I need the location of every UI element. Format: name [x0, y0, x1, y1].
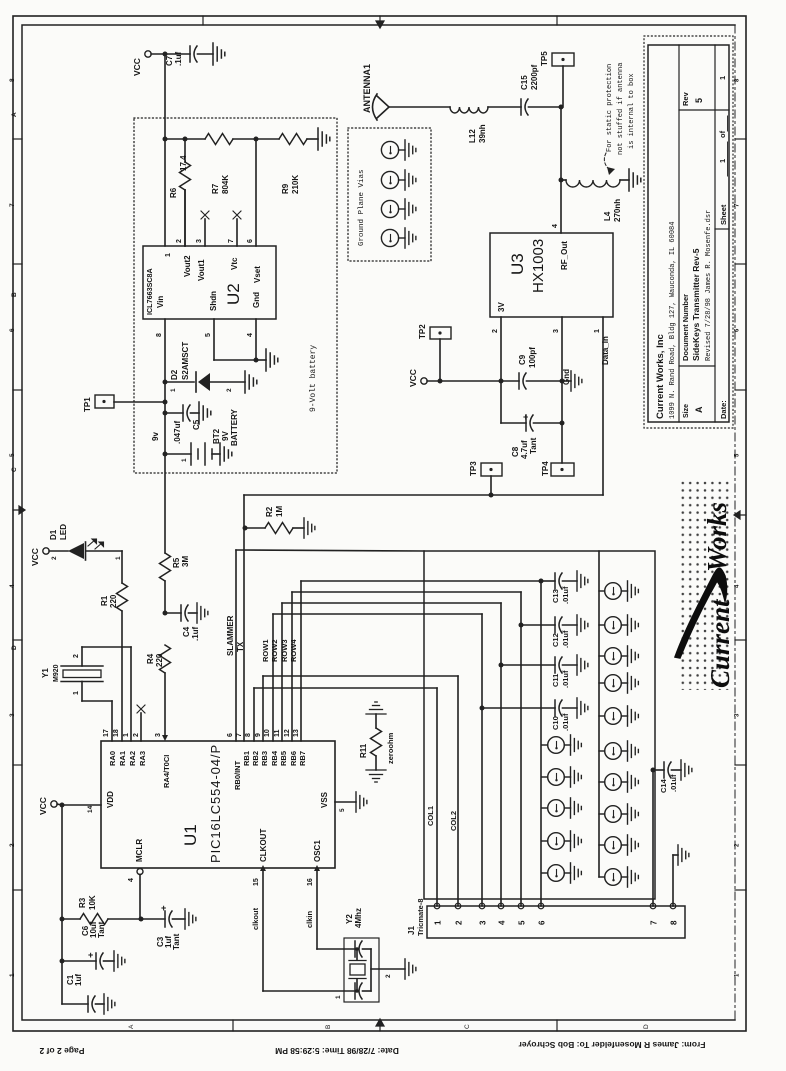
svg-text:4: 4: [498, 920, 507, 925]
svg-text:C12: C12: [551, 633, 560, 647]
svg-text:BATTERY: BATTERY: [230, 408, 239, 446]
svg-text:8: 8: [156, 333, 163, 337]
svg-text:RB6: RB6: [289, 751, 298, 766]
svg-text:.1uf: .1uf: [191, 626, 200, 641]
svg-text:R2: R2: [265, 506, 274, 517]
svg-text:Rev: Rev: [681, 91, 690, 106]
svg-text:D: D: [11, 645, 18, 650]
svg-text:C7: C7: [165, 55, 174, 66]
keypad switch S14 (right column): [599, 837, 628, 854]
svg-text:MCLR: MCLR: [135, 839, 144, 862]
node junction Vset rail: [254, 137, 259, 142]
svg-text:1: 1: [9, 973, 16, 977]
ground for C6: [114, 951, 125, 971]
wire COL2 RB3: [262, 676, 264, 741]
svg-text:VCC: VCC: [132, 58, 142, 76]
wire C9 to Gnd pin node: [527, 380, 563, 382]
svg-text:1: 1: [718, 76, 727, 80]
wire R3 to MCLR node: [108, 918, 141, 920]
keypad switch S8 (right column): [599, 648, 628, 665]
svg-text:not stuffed if antenna: not stuffed if antenna: [617, 63, 625, 155]
ground plane via 3: [381, 200, 405, 217]
ground for C1: [104, 994, 115, 1014]
svg-text:804K: 804K: [221, 175, 230, 194]
svg-text:1: 1: [181, 458, 188, 462]
node junction D2: [163, 380, 168, 385]
node junction TP3/Data_In: [489, 493, 494, 498]
svg-text:R7: R7: [211, 183, 220, 194]
antenna ANTENNA1: [373, 94, 390, 120]
zone ticks right edge: [735, 138, 746, 140]
ground plane vias dotted box: [348, 128, 431, 261]
svg-text:B: B: [11, 292, 18, 297]
wire Vset node down to U2 pin 6: [255, 139, 257, 246]
svg-text:7: 7: [650, 920, 659, 925]
U2 pin 2 Vout2 stub: [184, 190, 186, 246]
keypad switch S15 (right column): [599, 869, 628, 886]
wire TP3 down to Data_In line: [490, 476, 492, 495]
svg-text:210K: 210K: [291, 175, 300, 194]
capacitor C10: [482, 707, 555, 709]
U1 VDD pin wire: [62, 804, 101, 806]
svg-text:Vout2: Vout2: [183, 255, 192, 277]
capacitor C14: [653, 769, 664, 771]
svg-text:Gnd: Gnd: [252, 292, 261, 308]
svg-text:12: 12: [284, 729, 291, 737]
svg-text:J1: J1: [407, 926, 416, 935]
crystal Y2 element: [356, 949, 358, 960]
svg-text:is internal to box: is internal to box: [628, 73, 636, 149]
wire ROW3 RB6: [291, 592, 293, 741]
svg-text:10: 10: [264, 729, 271, 737]
wire right switch bus: [598, 551, 600, 877]
svg-text:3M: 3M: [181, 556, 190, 567]
ground for C4: [197, 603, 208, 623]
wire node to R9: [256, 138, 279, 140]
capacitor C4: [165, 612, 181, 614]
wire clkin run: [317, 948, 355, 950]
U2 pin 7 Vtc no-connect stub: [236, 219, 238, 246]
svg-text:10K: 10K: [88, 895, 97, 910]
svg-text:VCC: VCC: [408, 369, 418, 387]
svg-text:6: 6: [538, 920, 547, 925]
Y1 pin 2 wire: [81, 647, 83, 666]
keypad switch S12 (right column): [599, 774, 628, 791]
keypad switch S11 (right column): [599, 743, 628, 760]
J1 pin 1: [434, 903, 440, 909]
ground for C5: [199, 402, 211, 424]
J1 pin 4: [498, 903, 504, 909]
svg-text:7: 7: [228, 239, 235, 243]
keypad switch S4 (left column): [542, 833, 571, 850]
svg-text:RB0/INT: RB0/INT: [233, 760, 242, 790]
svg-text:Document Number: Document Number: [681, 294, 690, 361]
svg-text:For static protection: For static protection: [606, 64, 614, 152]
title block cell line Date/Sheet: [715, 228, 729, 230]
svg-text:1: 1: [73, 691, 80, 695]
U2 pin 4 Gnd wire: [255, 319, 257, 360]
diode D2 S2AMSCT: [165, 381, 194, 383]
U1 MCLR pin circle: [137, 869, 143, 875]
svg-text:VCC: VCC: [38, 797, 48, 815]
wire VCC rail down to U2 Vin: [164, 54, 166, 246]
svg-text:ROW3: ROW3: [280, 640, 289, 663]
U3 pin 1 wire (Data_In): [602, 317, 604, 495]
svg-text:Page 2 of 2: Page 2 of 2: [39, 1046, 84, 1056]
wire 3V down to C8: [500, 381, 502, 423]
svg-text:1: 1: [165, 253, 172, 257]
ground for U2 pins 4/5: [266, 349, 278, 371]
svg-text:A: A: [11, 112, 18, 117]
svg-text:220: 220: [109, 594, 118, 608]
wire rail to R6 top: [165, 138, 185, 140]
svg-text:+: +: [88, 950, 93, 960]
svg-text:4Mhz: 4Mhz: [354, 908, 363, 928]
node junction R6 top: [183, 137, 188, 142]
svg-text:9: 9: [255, 733, 262, 737]
wire Y2 to ground: [371, 968, 405, 970]
J1 pin 7: [650, 903, 656, 909]
wire VCC to D1: [49, 550, 68, 552]
ground for C7: [213, 43, 225, 65]
crystal Y1: [61, 665, 103, 667]
svg-text:Tant: Tant: [172, 933, 181, 950]
node junction TP1: [163, 400, 168, 405]
arrow into U1 pin 3: [162, 735, 168, 741]
svg-text:D2: D2: [170, 369, 179, 380]
ground for R2: [304, 518, 315, 538]
svg-text:Shdn: Shdn: [209, 291, 218, 311]
ground for C13: [577, 571, 588, 591]
svg-text:RB7: RB7: [298, 751, 307, 766]
svg-text:U2: U2: [224, 283, 243, 305]
svg-text:Date:: Date:: [719, 400, 728, 419]
svg-text:RA1: RA1: [118, 751, 127, 766]
svg-text:A: A: [128, 1024, 135, 1029]
wire to C3: [141, 918, 165, 920]
node junction TP2: [438, 379, 443, 384]
wire 3V node to C9: [501, 380, 519, 382]
ground below R11: [366, 770, 386, 782]
svg-text:4: 4: [247, 333, 254, 337]
svg-text:RB3: RB3: [260, 751, 269, 766]
svg-text:RA0: RA0: [108, 751, 117, 766]
keypad switch S6 (right column): [599, 583, 628, 600]
svg-text:16: 16: [307, 878, 314, 886]
wire COL1 RB2: [253, 688, 255, 741]
svg-text:39nh: 39nh: [478, 124, 487, 143]
svg-text:VCC: VCC: [30, 548, 40, 566]
svg-text:ICL7663SC8A: ICL7663SC8A: [145, 268, 154, 315]
crystal Y2 box: [344, 938, 379, 1002]
U3 pin 3 wire (Gnd): [561, 317, 563, 381]
svg-text:6: 6: [9, 328, 16, 332]
wire ROW1 drop to J1 pin 3: [481, 614, 483, 906]
wire RB1 riser (TX): [243, 495, 245, 741]
svg-text:1uf: 1uf: [74, 974, 83, 986]
svg-text:C9: C9: [518, 354, 527, 365]
keypad switch S7 (right column): [599, 617, 628, 634]
node junction Gnd pin / C9: [560, 379, 565, 384]
svg-text:4: 4: [552, 224, 559, 228]
svg-text:Ground Plane Vias: Ground Plane Vias: [358, 169, 366, 246]
keypad switch S2 (left column): [542, 769, 571, 786]
connector J1 box: [427, 906, 685, 938]
svg-text:.047uf: .047uf: [173, 421, 182, 444]
svg-text:Vin: Vin: [156, 296, 165, 308]
keypad switch S9 (right column): [599, 675, 628, 692]
zone ticks bottom edge: [232, 1020, 234, 1031]
svg-text:TP4: TP4: [541, 461, 550, 476]
resistor R2: [245, 527, 265, 529]
wire RF node down to U3: [560, 107, 562, 233]
svg-text:SideKeys Transmitter Rev-5: SideKeys Transmitter Rev-5: [691, 248, 701, 361]
svg-text:L12: L12: [468, 129, 477, 143]
svg-text:2: 2: [176, 239, 183, 243]
svg-text:2: 2: [226, 388, 233, 392]
svg-text:D: D: [643, 1024, 650, 1029]
resistor R1 (vertical): [117, 583, 128, 611]
svg-text:7: 7: [236, 733, 243, 737]
logo halftone dot field: [679, 479, 732, 690]
node junction ROW4 drop: [539, 579, 544, 584]
svg-text:Works: Works: [702, 502, 732, 572]
capacitor C11: [501, 664, 555, 666]
frame bottom(landscape) dash-dot line: [734, 25, 736, 1020]
svg-text:3: 3: [553, 329, 560, 333]
resistor R11 zeroohm (vertical): [375, 714, 377, 728]
svg-text:TP2: TP2: [418, 324, 427, 339]
wire VCC rail down: [61, 805, 63, 1004]
ground for C11: [577, 655, 588, 675]
resistor R4 (vertical): [160, 645, 171, 673]
svg-text:2: 2: [133, 733, 140, 737]
ground for C14: [681, 760, 692, 780]
svg-text:RB5: RB5: [279, 751, 288, 766]
svg-text:C13: C13: [551, 589, 560, 603]
svg-text:RA3: RA3: [138, 751, 147, 766]
svg-text:1099 N. Rand Road, Bldg 127, W: 1099 N. Rand Road, Bldg 127, Wauconda, I…: [669, 222, 677, 419]
wire to C6: [62, 960, 96, 962]
capacitor C7: [190, 46, 197, 62]
Y2 load capacitor top: [355, 941, 362, 957]
test point TP1: [95, 395, 114, 408]
wire Gnd rail down to TP4: [561, 381, 563, 463]
node junction C14: [651, 768, 656, 773]
svg-text:3: 3: [155, 733, 162, 737]
svg-text:TX: TX: [236, 641, 245, 652]
svg-text:1: 1: [718, 159, 727, 163]
svg-text:8: 8: [670, 920, 679, 925]
wire L12 to C15: [488, 106, 521, 108]
svg-text:C14: C14: [659, 778, 668, 793]
svg-text:5: 5: [518, 920, 527, 925]
wire COL2 drop to J1 pin 2: [457, 676, 459, 906]
svg-text:1: 1: [335, 995, 342, 999]
U1 CLKOUT pin wire: [260, 865, 266, 871]
svg-text:2: 2: [51, 556, 58, 560]
svg-text:4: 4: [128, 878, 135, 882]
svg-text:COL2: COL2: [449, 811, 458, 831]
svg-text:S2AMSCT: S2AMSCT: [181, 342, 190, 380]
svg-text:5: 5: [339, 808, 346, 812]
svg-text:ROW1: ROW1: [261, 640, 270, 663]
ground for BT2: [220, 443, 232, 465]
test point TP3: [481, 463, 502, 476]
wire ROW4 RB7: [300, 581, 302, 741]
svg-text:OSC1: OSC1: [313, 840, 322, 862]
svg-text:C8: C8: [511, 446, 520, 457]
ground plane via 4: [381, 229, 405, 246]
wire to R3: [62, 918, 80, 920]
battery BT2 9V: [165, 453, 191, 455]
svg-text:8: 8: [9, 78, 16, 82]
svg-text:C10: C10: [551, 716, 560, 730]
inductor L4: [561, 179, 566, 181]
svg-text:3V: 3V: [497, 302, 506, 312]
svg-text:D1: D1: [49, 529, 58, 540]
svg-text:Tant: Tant: [97, 921, 106, 938]
wire to ground U2: [256, 359, 266, 361]
svg-text:RA4/T0CI: RA4/T0CI: [162, 755, 171, 788]
svg-text:TP3: TP3: [469, 461, 478, 476]
svg-text:7: 7: [9, 203, 16, 207]
svg-text:clkout: clkout: [251, 907, 260, 930]
test point TP5: [552, 53, 574, 66]
wire TP1 to rail: [114, 401, 165, 403]
ground for J1 pin 8: [678, 845, 689, 865]
keypad outline box: [424, 551, 655, 899]
wire VCC junction: [57, 804, 62, 805]
svg-text:M920: M920: [53, 664, 60, 682]
wire R6 node to R7: [185, 138, 205, 140]
svg-text:COL1: COL1: [426, 806, 435, 826]
svg-text:TP5: TP5: [540, 51, 549, 66]
title block row line 1: [678, 45, 680, 422]
svg-text:2: 2: [455, 920, 464, 925]
svg-text:3: 3: [9, 713, 16, 717]
ground for VSS: [356, 792, 367, 812]
svg-text:clkin: clkin: [305, 910, 314, 928]
op-amp U3 HX1003 box: [490, 233, 613, 317]
svg-text:4.7uf: 4.7uf: [520, 440, 529, 459]
svg-text:.01uf: .01uf: [561, 586, 570, 604]
svg-text:9V: 9V: [221, 431, 230, 441]
capacitor C12: [521, 624, 555, 626]
svg-text:PIC16LC554-04/P: PIC16LC554-04/P: [208, 744, 223, 863]
svg-text:Size: Size: [683, 404, 690, 418]
svg-text:R6: R6: [169, 187, 178, 198]
svg-text:VDD: VDD: [106, 791, 115, 808]
node junction L4: [559, 178, 564, 183]
wire R7 to Vset node: [233, 138, 256, 140]
U1 OSC1 pin wire: [314, 865, 320, 871]
svg-text:L4: L4: [603, 211, 612, 221]
LED D1: [68, 543, 84, 559]
svg-text:15: 15: [253, 878, 260, 886]
wire C8 to Gnd rail: [534, 422, 563, 424]
svg-text:6: 6: [247, 239, 254, 243]
svg-text:18: 18: [113, 729, 120, 737]
svg-text:ROW2: ROW2: [270, 640, 279, 663]
svg-text:.01uf: .01uf: [561, 670, 570, 688]
wire to ground C9: [562, 380, 571, 382]
wire J1 pin 7 riser: [652, 770, 654, 906]
wire ROW1 RB4: [272, 614, 274, 741]
svg-text:R9: R9: [281, 183, 290, 194]
wire R2 to ground: [293, 527, 304, 529]
svg-text:9-Volt battery: 9-Volt battery: [309, 345, 318, 412]
zone ticks left edge: [13, 138, 22, 140]
svg-text:of: of: [718, 130, 727, 138]
node junction C8/Gnd rail: [560, 421, 565, 426]
svg-text:11: 11: [274, 729, 281, 737]
U2 pin 3 Vout1 no-connect stub: [204, 219, 206, 246]
logo swoosh: [675, 568, 727, 658]
svg-text:C: C: [11, 467, 18, 472]
svg-text:Current: Current: [705, 598, 735, 688]
title block dotted outline: [644, 36, 733, 428]
wire J1 pin 8 riser to ground: [672, 855, 674, 906]
op-amp U1 PIC16LC554-04/P box: [101, 741, 335, 868]
svg-text:Vset: Vset: [253, 266, 262, 283]
svg-text:RB2: RB2: [251, 751, 260, 766]
ground for C12: [577, 615, 588, 635]
wire COL1 drop to J1 pin 1: [436, 688, 438, 906]
keypad switch S10 (right column): [599, 708, 628, 725]
svg-text:.01uf: .01uf: [669, 774, 678, 792]
wire antenna to L12: [389, 106, 450, 108]
ground above R11: [366, 702, 386, 714]
svg-text:C: C: [464, 1024, 471, 1029]
keypad switch S3 (left column): [542, 800, 571, 817]
J1 pin 8: [670, 903, 676, 909]
power symbol VCC (LED): [43, 548, 49, 554]
resistor R7: [205, 134, 233, 145]
svg-text:100pf: 100pf: [528, 347, 537, 368]
node junction at C7: [163, 52, 168, 57]
node junction ROW3 branch: [519, 623, 524, 628]
U1 RA3 no-connect stub: [140, 713, 142, 741]
Y1 pin 1 wire: [81, 682, 83, 702]
svg-text:1: 1: [123, 733, 130, 737]
svg-text:RA2: RA2: [128, 751, 137, 766]
svg-text:270nh: 270nh: [613, 199, 622, 222]
svg-text:Tant: Tant: [529, 437, 538, 454]
svg-text:3: 3: [479, 920, 488, 925]
power symbol VCC (U1): [51, 801, 57, 807]
svg-text:From: James R Mosenfelder To:: From: James R Mosenfelder To: Bob Schroy…: [518, 1040, 706, 1050]
title block cell line Rev: [679, 109, 729, 111]
node junction ROW2 branch: [499, 663, 504, 668]
wire ROW2 drop to J1 pin 4: [500, 603, 502, 906]
svg-text:5: 5: [205, 333, 212, 337]
svg-text:ANTENNA1: ANTENNA1: [362, 64, 372, 113]
wire TP2 down: [439, 339, 441, 381]
svg-text:RF_Out: RF_Out: [560, 241, 569, 270]
op-amp U2 ICL7663SC8A box: [143, 246, 276, 319]
svg-text:C4: C4: [182, 626, 191, 637]
wire C1 to ground: [96, 1003, 105, 1005]
svg-text:VSS: VSS: [320, 791, 329, 808]
svg-text:Revised 7/28/98 James R. Mosen: Revised 7/28/98 James R. Mosenfe.dsr: [705, 210, 713, 361]
svg-text:2: 2: [385, 974, 392, 978]
note dashed arrow: [604, 153, 611, 171]
node junction C6: [60, 959, 65, 964]
svg-text:TP1: TP1: [83, 397, 92, 412]
svg-text:Vout1: Vout1: [197, 259, 206, 281]
svg-text:5: 5: [9, 453, 16, 457]
